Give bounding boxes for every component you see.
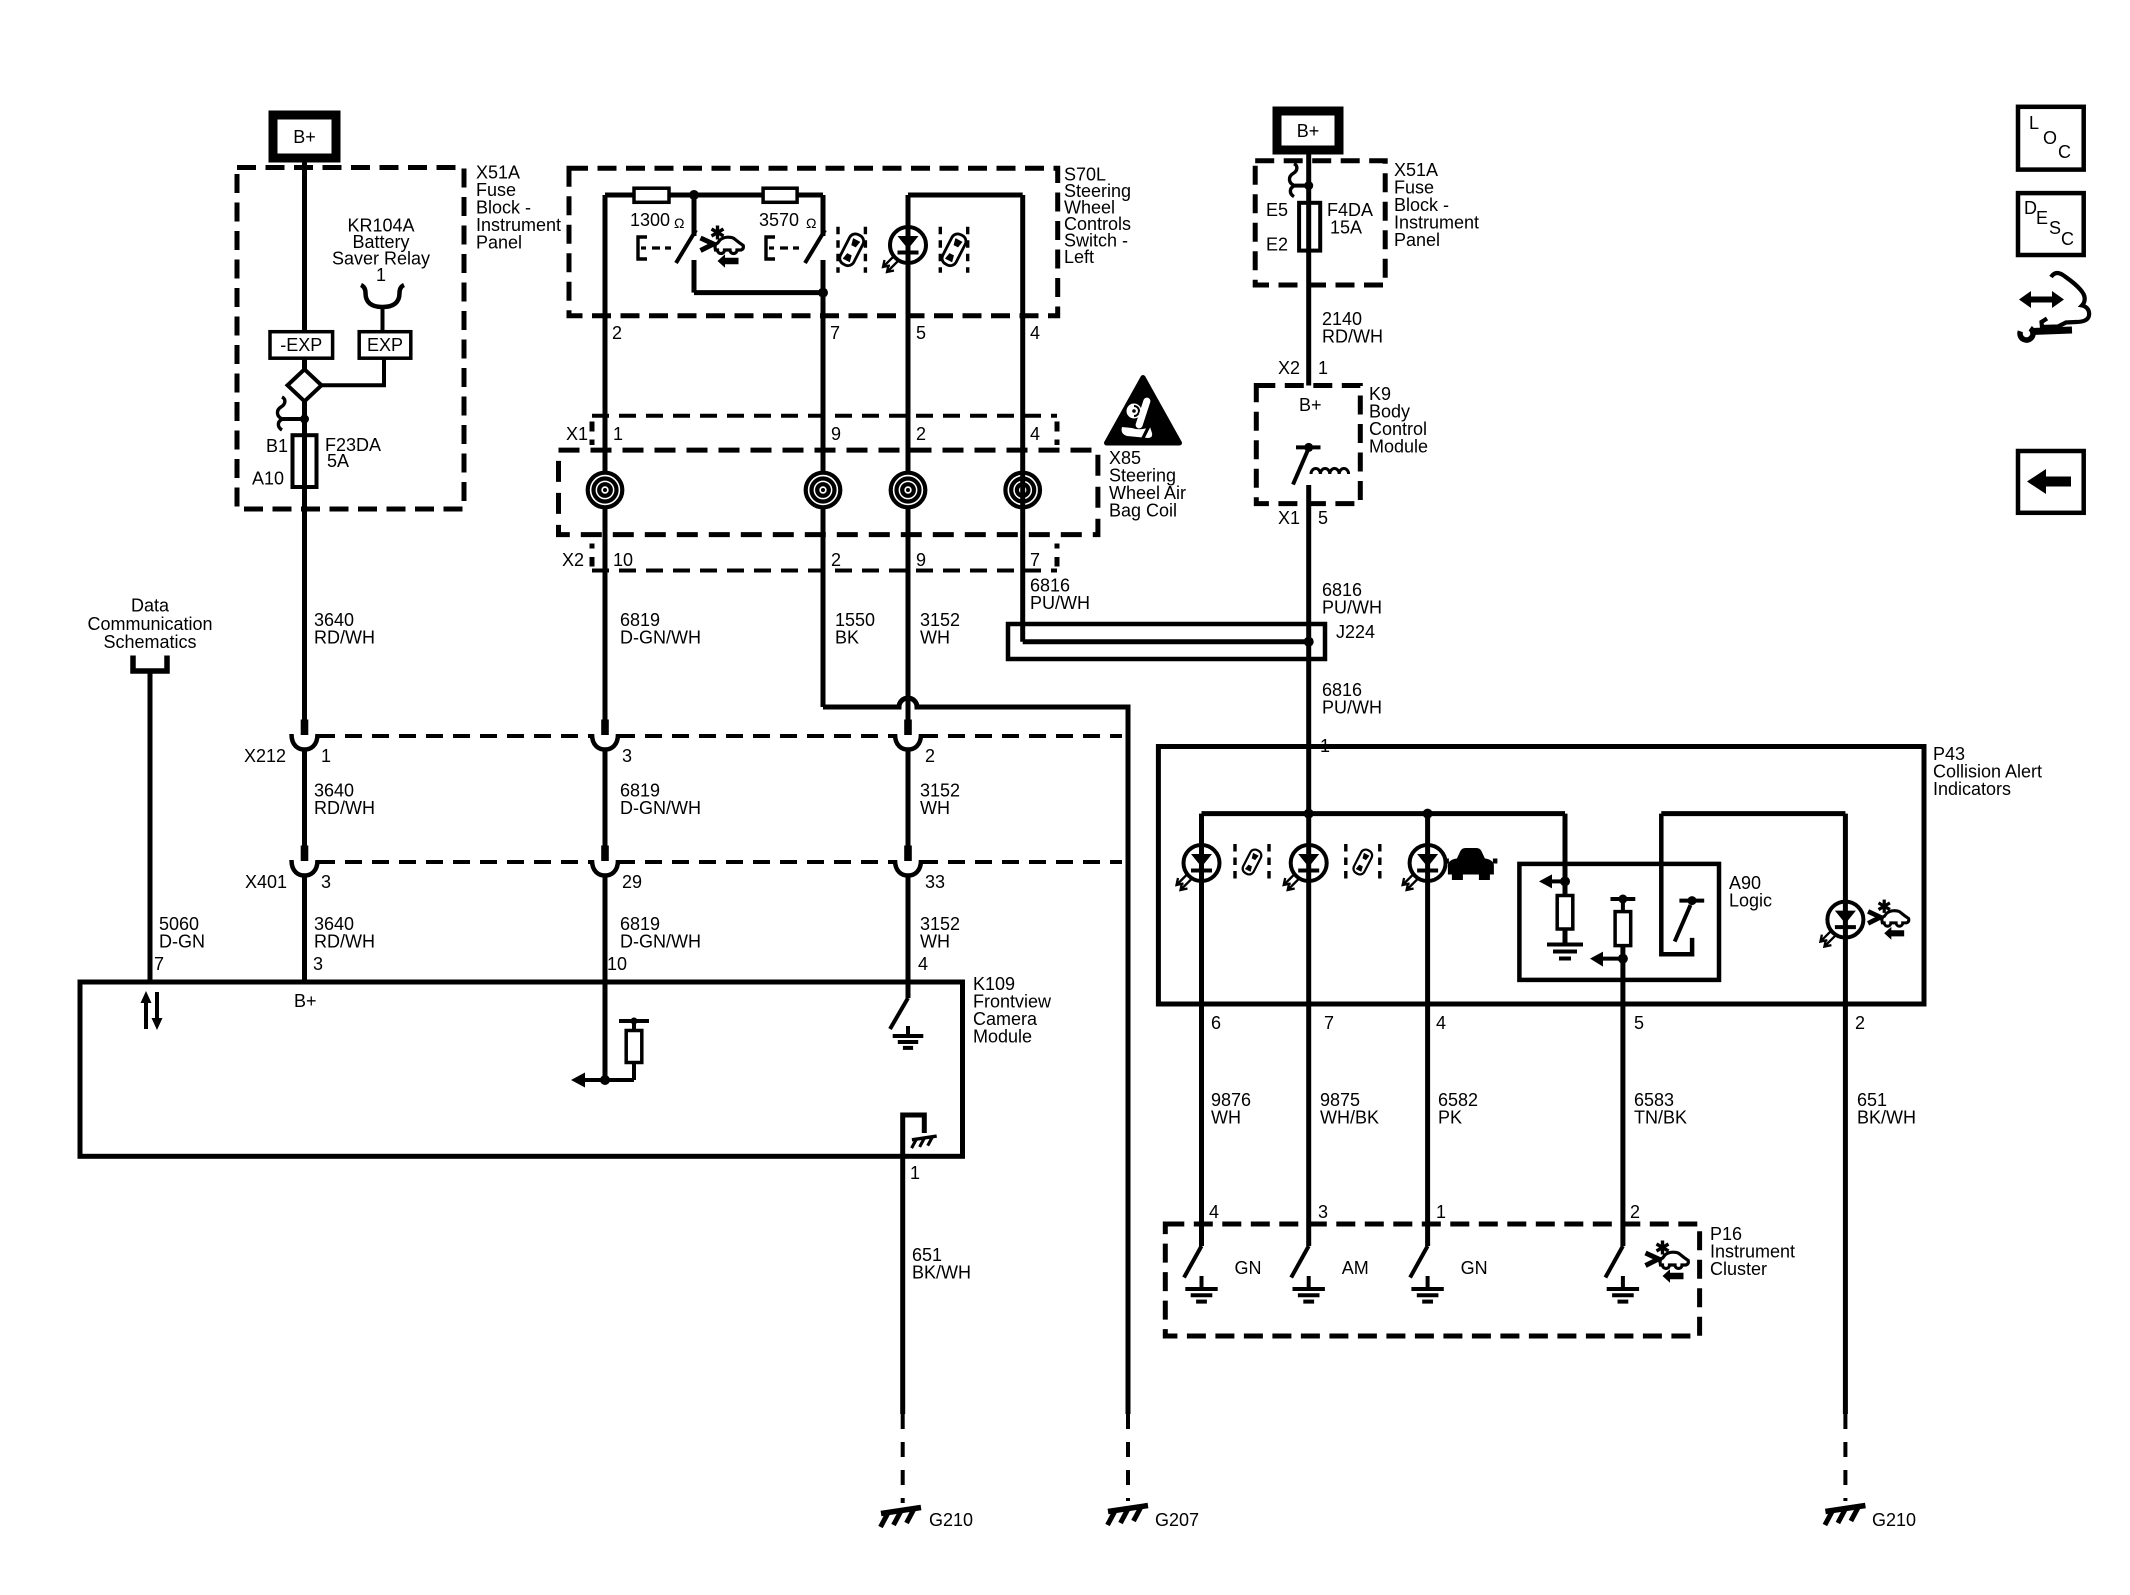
svg-text:E: E xyxy=(2036,208,2048,228)
svg-text:3: 3 xyxy=(622,746,632,766)
svg-text:AM: AM xyxy=(1342,1258,1369,1278)
svg-text:GN: GN xyxy=(1461,1258,1488,1278)
svg-text:1: 1 xyxy=(613,424,623,444)
svg-text:Schematics: Schematics xyxy=(103,632,196,652)
svg-text:J224: J224 xyxy=(1336,622,1375,642)
svg-text:S: S xyxy=(2049,218,2061,238)
svg-text:9: 9 xyxy=(831,424,841,444)
svg-text:EXP: EXP xyxy=(367,335,403,355)
svg-text:4: 4 xyxy=(1030,323,1040,343)
svg-text:4: 4 xyxy=(1030,424,1040,444)
svg-text:5: 5 xyxy=(1318,508,1328,528)
svg-text:1: 1 xyxy=(1436,1202,1446,1222)
svg-text:Module: Module xyxy=(973,1027,1032,1047)
svg-text:BK/WH: BK/WH xyxy=(1857,1108,1916,1128)
svg-text:WH: WH xyxy=(920,628,950,648)
svg-text:E5: E5 xyxy=(1266,200,1288,220)
svg-text:Communication: Communication xyxy=(87,614,212,634)
svg-text:G210: G210 xyxy=(1872,1510,1916,1530)
svg-text:D-GN/WH: D-GN/WH xyxy=(620,932,701,952)
svg-text:PU/WH: PU/WH xyxy=(1030,593,1090,613)
svg-text:RD/WH: RD/WH xyxy=(314,932,375,952)
svg-text:B1: B1 xyxy=(266,436,288,456)
svg-text:X212: X212 xyxy=(244,746,286,766)
svg-text:7: 7 xyxy=(1324,1013,1334,1033)
svg-text:Left: Left xyxy=(1064,247,1094,267)
svg-text:3: 3 xyxy=(321,872,331,892)
svg-text:BK/WH: BK/WH xyxy=(912,1263,971,1283)
svg-text:9: 9 xyxy=(916,550,926,570)
svg-text:X1: X1 xyxy=(566,424,588,444)
svg-text:6: 6 xyxy=(1211,1013,1221,1033)
svg-text:1: 1 xyxy=(910,1163,920,1183)
svg-text:Module: Module xyxy=(1369,437,1428,457)
svg-text:A10: A10 xyxy=(252,469,284,489)
svg-text:1300: 1300 xyxy=(630,210,670,230)
svg-text:RD/WH: RD/WH xyxy=(314,798,375,818)
svg-text:B+: B+ xyxy=(293,127,316,147)
svg-text:TN/BK: TN/BK xyxy=(1634,1108,1687,1128)
svg-text:Data: Data xyxy=(131,596,170,616)
svg-text:D-GN: D-GN xyxy=(159,932,205,952)
svg-text:O: O xyxy=(2043,128,2057,148)
svg-text:2: 2 xyxy=(916,424,926,444)
svg-text:E2: E2 xyxy=(1266,235,1288,255)
svg-text:15A: 15A xyxy=(1330,218,1362,238)
svg-text:1: 1 xyxy=(321,746,331,766)
svg-text:C: C xyxy=(2058,142,2071,162)
svg-text:1: 1 xyxy=(376,265,386,285)
svg-text:RD/WH: RD/WH xyxy=(1322,327,1383,347)
svg-text:Ω: Ω xyxy=(806,215,816,231)
svg-text:3570: 3570 xyxy=(759,210,799,230)
svg-text:X401: X401 xyxy=(245,872,287,892)
svg-text:3: 3 xyxy=(1318,1202,1328,1222)
svg-text:Cluster: Cluster xyxy=(1710,1259,1767,1279)
svg-text:4: 4 xyxy=(1436,1013,1446,1033)
svg-text:-EXP: -EXP xyxy=(280,335,322,355)
svg-text:WH: WH xyxy=(920,932,950,952)
svg-text:Ω: Ω xyxy=(674,215,684,231)
svg-text:7: 7 xyxy=(830,323,840,343)
svg-text:WH: WH xyxy=(920,798,950,818)
svg-text:Logic: Logic xyxy=(1729,891,1772,911)
svg-text:1: 1 xyxy=(1318,358,1328,378)
svg-text:2: 2 xyxy=(1630,1202,1640,1222)
svg-text:2: 2 xyxy=(925,746,935,766)
svg-text:29: 29 xyxy=(622,872,642,892)
svg-text:PU/WH: PU/WH xyxy=(1322,698,1382,718)
svg-text:G207: G207 xyxy=(1155,1510,1199,1530)
svg-text:BK: BK xyxy=(835,628,859,648)
svg-text:X1: X1 xyxy=(1278,508,1300,528)
svg-text:5: 5 xyxy=(1634,1013,1644,1033)
svg-text:B+: B+ xyxy=(1297,121,1320,141)
svg-text:WH/BK: WH/BK xyxy=(1320,1108,1379,1128)
svg-text:4: 4 xyxy=(918,954,928,974)
svg-text:5A: 5A xyxy=(327,451,349,471)
svg-text:2: 2 xyxy=(1855,1013,1865,1033)
svg-text:B+: B+ xyxy=(1299,395,1322,415)
svg-text:2: 2 xyxy=(612,323,622,343)
svg-text:RD/WH: RD/WH xyxy=(314,628,375,648)
svg-text:C: C xyxy=(2061,229,2074,249)
svg-text:10: 10 xyxy=(607,954,627,974)
svg-text:X2: X2 xyxy=(1278,358,1300,378)
svg-text:Panel: Panel xyxy=(476,233,522,253)
svg-text:PU/WH: PU/WH xyxy=(1322,598,1382,618)
svg-text:5: 5 xyxy=(916,323,926,343)
svg-text:33: 33 xyxy=(925,872,945,892)
svg-text:G210: G210 xyxy=(929,1510,973,1530)
svg-text:PK: PK xyxy=(1438,1108,1462,1128)
svg-text:L: L xyxy=(2029,113,2039,133)
svg-text:D-GN/WH: D-GN/WH xyxy=(620,798,701,818)
svg-text:WH: WH xyxy=(1211,1108,1241,1128)
svg-text:X2: X2 xyxy=(562,550,584,570)
svg-text:Indicators: Indicators xyxy=(1933,779,2011,799)
svg-text:B+: B+ xyxy=(294,991,317,1011)
svg-text:GN: GN xyxy=(1235,1258,1262,1278)
svg-text:3: 3 xyxy=(313,954,323,974)
svg-text:4: 4 xyxy=(1209,1202,1219,1222)
svg-text:7: 7 xyxy=(154,954,164,974)
svg-text:2: 2 xyxy=(831,550,841,570)
svg-text:D-GN/WH: D-GN/WH xyxy=(620,628,701,648)
svg-text:Bag Coil: Bag Coil xyxy=(1109,501,1177,521)
svg-text:Panel: Panel xyxy=(1394,230,1440,250)
svg-text:7: 7 xyxy=(1030,550,1040,570)
svg-text:10: 10 xyxy=(613,550,633,570)
